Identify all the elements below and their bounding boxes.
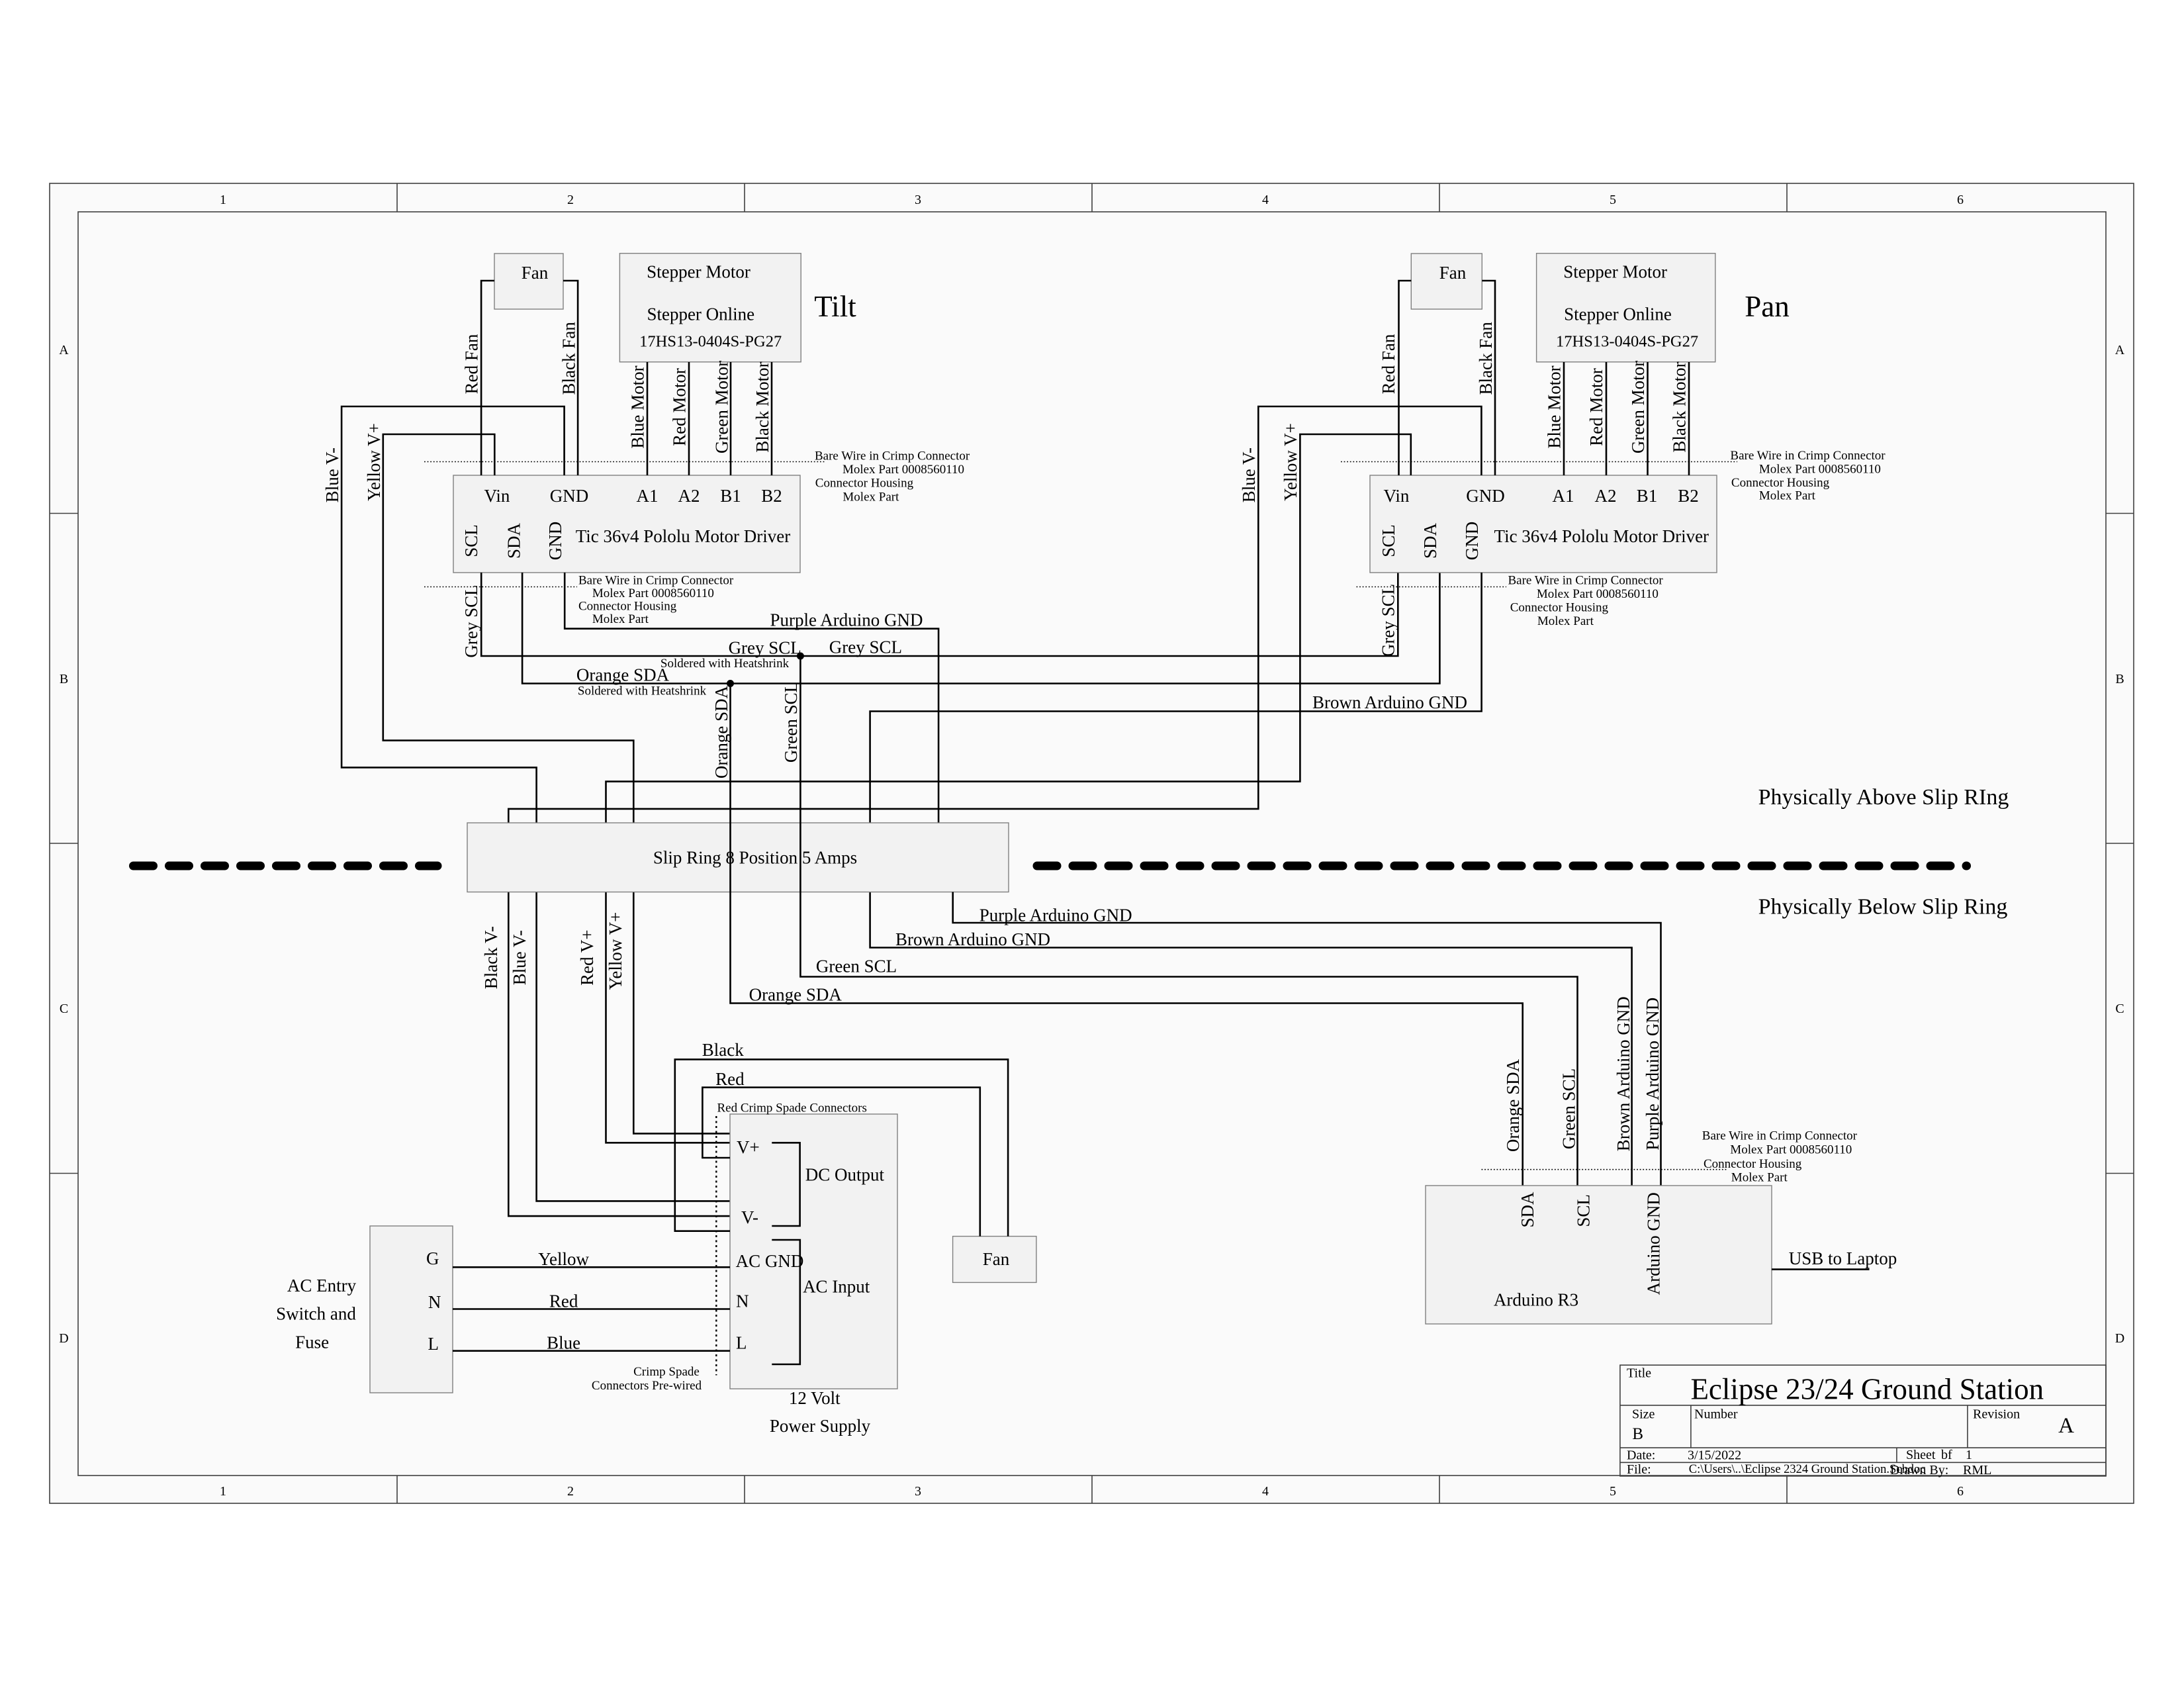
svg-text:AC Entry: AC Entry (287, 1276, 357, 1295)
svg-text:bf: bf (1941, 1448, 1952, 1462)
svg-text:1: 1 (1966, 1448, 1972, 1462)
svg-text:1: 1 (220, 193, 226, 207)
wire yellow AC ground (453, 1266, 730, 1268)
svg-text:Green Motor: Green Motor (1628, 361, 1648, 453)
zone labels bottom (220, 1484, 1964, 1499)
DC output bracket (772, 1143, 799, 1226)
svg-text:Crimp Spade: Crimp Spade (633, 1365, 700, 1379)
svg-text:Stepper Motor: Stepper Motor (1563, 262, 1667, 282)
svg-text:B: B (2115, 672, 2124, 686)
svg-text:Connector Housing: Connector Housing (1510, 601, 1609, 615)
svg-text:Power Supply: Power Supply (770, 1416, 871, 1436)
wire blue motor (tilt) (647, 362, 649, 475)
svg-text:Bare Wire in Crimp Connector: Bare Wire in Crimp Connector (815, 449, 970, 463)
svg-text:Soldered with Heatshrink: Soldered with Heatshrink (578, 684, 707, 698)
bottom fan box (953, 1237, 1036, 1283)
svg-text:Arduino R3: Arduino R3 (1494, 1290, 1578, 1310)
svg-text:GND: GND (1466, 486, 1505, 506)
svg-text:DC Output: DC Output (805, 1165, 885, 1185)
wire brown arduino GND (pan GND through slip ring to arduino) (870, 573, 1632, 1186)
wire blue motor (pan) (1563, 362, 1565, 475)
svg-text:Stepper Online: Stepper Online (647, 305, 754, 324)
svg-text:Vin: Vin (1384, 486, 1410, 506)
slip ring box (467, 823, 1009, 892)
svg-text:Bare Wire in Crimp Connector: Bare Wire in Crimp Connector (1702, 1129, 1858, 1143)
svg-text:Blue Motor: Blue Motor (627, 365, 647, 448)
wire blue AC line (453, 1350, 730, 1352)
svg-text:Red Crimp Spade Connectors: Red Crimp Spade Connectors (717, 1102, 867, 1115)
title block frame (1620, 1365, 2106, 1476)
svg-text:A: A (2115, 343, 2125, 357)
svg-text:Black: Black (702, 1040, 744, 1060)
zone row ticks right (2106, 514, 2134, 1174)
svg-text:SDA: SDA (1518, 1192, 1537, 1228)
wire blue V- (tilt) to slip ring to PSU V- (341, 406, 730, 1201)
svg-text:Red: Red (549, 1291, 578, 1311)
svg-text:Yellow: Yellow (538, 1249, 589, 1269)
wire black motor (pan) (1688, 362, 1690, 475)
svg-text:B: B (60, 672, 68, 686)
svg-text:Orange SDA: Orange SDA (1503, 1058, 1523, 1152)
svg-text:GND: GND (550, 486, 589, 506)
title block: File row (1627, 1462, 1991, 1477)
svg-text:SCL: SCL (1379, 524, 1398, 557)
arduino R3 box (1426, 1186, 1772, 1324)
svg-text:4: 4 (1262, 1484, 1269, 1499)
svg-text:4: 4 (1262, 193, 1269, 207)
svg-text:Red Motor: Red Motor (1586, 368, 1606, 446)
svg-text:5: 5 (1610, 1484, 1616, 1499)
svg-text:Physically Above Slip RIng: Physically Above Slip RIng (1758, 785, 2009, 810)
title block: Date row (1627, 1448, 1972, 1463)
dotted crimp spade line (PSU) (715, 1116, 717, 1376)
separation dashed line right (1037, 862, 1967, 870)
svg-text:V-: V- (741, 1207, 758, 1227)
svg-text:Purple Arduino GND: Purple Arduino GND (770, 610, 923, 630)
svg-text:Black Fan: Black Fan (1476, 322, 1496, 395)
svg-text:SDA: SDA (504, 522, 524, 559)
svg-text:Green SCL: Green SCL (781, 682, 801, 763)
note bare wire crimp (tilt top) (815, 449, 970, 504)
svg-text:C: C (2115, 1002, 2124, 1016)
AC input bracket (772, 1240, 800, 1364)
svg-text:Molex Part: Molex Part (1731, 1171, 1788, 1185)
svg-text:Molex Part 0008560110: Molex Part 0008560110 (1730, 1143, 1852, 1157)
svg-text:Purple Arduino GND: Purple Arduino GND (1643, 998, 1662, 1150)
svg-text:Yellow V+: Yellow V+ (364, 423, 384, 501)
svg-text:File:: File: (1627, 1462, 1651, 1477)
note bare wire crimp (tilt bottom) (578, 574, 734, 627)
svg-text:Grey SCL: Grey SCL (729, 638, 801, 658)
svg-text:Green SCL: Green SCL (1559, 1068, 1578, 1149)
svg-text:Brown Arduino GND: Brown Arduino GND (1614, 996, 1633, 1151)
tilt fan box (494, 254, 563, 309)
wire red PSU to fan (702, 1088, 979, 1237)
wire purple arduino GND (tilt GND to slip ring) (565, 573, 938, 823)
frame inner border (78, 212, 2106, 1476)
wire red fan (pan) (1399, 281, 1412, 475)
wire USB to laptop (1772, 1268, 1870, 1270)
svg-text:Physically Below Slip Ring: Physically Below Slip Ring (1758, 895, 2008, 919)
svg-text:Tilt: Tilt (814, 290, 856, 323)
svg-text:3/15/2022: 3/15/2022 (1688, 1448, 1741, 1463)
svg-text:Red Fan: Red Fan (1379, 334, 1398, 394)
svg-text:3: 3 (915, 193, 921, 207)
note bare wire crimp (pan bottom) (1508, 574, 1664, 629)
zone column ticks top (397, 183, 1787, 212)
svg-text:Orange SDA: Orange SDA (576, 665, 670, 685)
svg-text:Blue V-: Blue V- (1239, 447, 1259, 502)
svg-text:Molex Part 0008560110: Molex Part 0008560110 (1537, 587, 1659, 601)
svg-text:A: A (59, 343, 69, 357)
dotted connector line pan bottom (1357, 586, 1507, 588)
svg-text:Connector Housing: Connector Housing (815, 477, 914, 491)
svg-text:AC Input: AC Input (803, 1276, 870, 1296)
svg-text:Black Motor: Black Motor (752, 361, 772, 452)
svg-text:Blue V-: Blue V- (510, 930, 529, 985)
svg-text:D: D (59, 1331, 68, 1346)
svg-text:Bare Wire in Crimp Connector: Bare Wire in Crimp Connector (1730, 449, 1886, 463)
svg-text:RML: RML (1963, 1463, 1991, 1477)
svg-text:A1: A1 (1553, 486, 1574, 506)
svg-text:Molex Part 0008560110: Molex Part 0008560110 (592, 586, 714, 600)
svg-text:Red Motor: Red Motor (669, 368, 689, 446)
wire black PSU to fan (675, 1059, 1008, 1236)
wire black fan (pan) (1482, 281, 1495, 475)
svg-text:Connector Housing: Connector Housing (1731, 476, 1830, 490)
svg-text:SDA: SDA (1420, 522, 1440, 559)
svg-text:B: B (1632, 1425, 1643, 1443)
svg-text:L: L (736, 1333, 747, 1353)
svg-text:6: 6 (1957, 1484, 1964, 1499)
wire yellow V+ (pan) to slip ring to PSU V+ (606, 434, 1411, 1143)
svg-text:A2: A2 (1595, 486, 1617, 506)
pan motor driver U2 (1370, 475, 1717, 573)
svg-text:B1: B1 (720, 486, 741, 506)
zone labels right (2115, 343, 2125, 1346)
svg-text:6: 6 (1957, 193, 1964, 207)
svg-text:Purple Arduino GND: Purple Arduino GND (979, 906, 1132, 925)
zone row ticks left (50, 514, 78, 1174)
svg-text:17HS13-0404S-PG27: 17HS13-0404S-PG27 (639, 333, 782, 351)
svg-text:Vin: Vin (484, 486, 510, 506)
wire red fan (tilt) (481, 281, 494, 475)
svg-text:Fan: Fan (1439, 263, 1467, 283)
svg-text:D: D (2115, 1331, 2124, 1346)
svg-text:Black Motor: Black Motor (1670, 361, 1690, 452)
svg-text:1: 1 (220, 1484, 226, 1499)
separation dashed line left (134, 862, 438, 870)
svg-text:Brown Arduino GND: Brown Arduino GND (1312, 692, 1467, 712)
svg-text:Title: Title (1627, 1366, 1651, 1381)
svg-text:A2: A2 (678, 486, 700, 506)
svg-text:USB to Laptop: USB to Laptop (1789, 1248, 1897, 1268)
wire blue V- (pan) to slip ring to PSU V- (508, 406, 1481, 1216)
svg-text:Tic 36v4 Pololu Motor Driver: Tic 36v4 Pololu Motor Driver (1494, 526, 1709, 546)
note bare wire crimp (arduino) (1702, 1129, 1858, 1185)
frame outer border (50, 183, 2134, 1503)
note bare wire crimp (pan top) (1730, 449, 1886, 503)
svg-text:5: 5 (1610, 193, 1616, 207)
svg-text:Orange SDA: Orange SDA (711, 685, 731, 778)
svg-text:GND: GND (1462, 522, 1482, 561)
svg-text:Grey SCL: Grey SCL (1379, 584, 1398, 657)
wire red AC neutral (453, 1308, 730, 1310)
svg-text:Pan: Pan (1745, 290, 1790, 323)
svg-text:Stepper Motor: Stepper Motor (647, 262, 751, 282)
svg-text:A: A (2058, 1414, 2074, 1438)
dotted connector line pan top (1341, 461, 1737, 463)
tilt motor driver U1 (453, 475, 800, 573)
svg-text:Slip Ring 8 Position 5 Amps: Slip Ring 8 Position 5 Amps (653, 848, 857, 868)
wire black fan (tilt) (563, 281, 578, 475)
svg-text:Size: Size (1632, 1407, 1655, 1421)
wire orange SDA (junction to slip ring to arduino SDA) (731, 684, 1523, 1186)
wire grey SCL bus tilt-to-pan (481, 573, 1398, 656)
svg-text:G: G (426, 1248, 439, 1268)
svg-text:17HS13-0404S-PG27: 17HS13-0404S-PG27 (1556, 333, 1698, 351)
svg-text:Connector Housing: Connector Housing (578, 600, 677, 614)
svg-text:Connectors Pre-wired: Connectors Pre-wired (592, 1379, 702, 1393)
svg-text:Bare Wire in Crimp Connector: Bare Wire in Crimp Connector (578, 574, 734, 588)
svg-text:Molex Part: Molex Part (1759, 489, 1816, 503)
svg-text:Red V+: Red V+ (577, 929, 597, 985)
svg-text:SCL: SCL (461, 524, 481, 557)
wire black motor (tilt) (771, 362, 773, 475)
svg-text:Yellow V+: Yellow V+ (1281, 423, 1300, 501)
svg-text:C: C (60, 1002, 68, 1016)
svg-text:Molex Part: Molex Part (842, 491, 899, 504)
svg-text:Bare Wire in Crimp Connector: Bare Wire in Crimp Connector (1508, 574, 1664, 588)
svg-text:3: 3 (915, 1484, 921, 1499)
svg-text:Sheet: Sheet (1906, 1448, 1936, 1462)
svg-text:B2: B2 (761, 486, 782, 506)
dotted connector line tilt top (424, 461, 825, 463)
wire yellow V+ (tilt) to slip ring to PSU V+ (383, 434, 730, 1133)
svg-text:Tic 36v4 Pololu Motor Driver: Tic 36v4 Pololu Motor Driver (576, 526, 791, 546)
svg-text:Yellow V+: Yellow V+ (606, 912, 625, 990)
svg-text:N: N (428, 1292, 441, 1312)
svg-text:V+: V+ (737, 1137, 760, 1157)
svg-text:Drawn By:: Drawn By: (1890, 1463, 1948, 1477)
wire green motor (tilt) (730, 362, 732, 475)
svg-text:Molex Part: Molex Part (592, 612, 649, 626)
svg-text:Green SCL: Green SCL (816, 957, 897, 976)
svg-text:Orange SDA: Orange SDA (749, 985, 842, 1005)
svg-text:Black V-: Black V- (481, 926, 501, 989)
svg-text:Arduino GND: Arduino GND (1644, 1192, 1664, 1295)
svg-text:2: 2 (567, 193, 574, 207)
svg-text:Black Fan: Black Fan (559, 322, 578, 395)
dotted connector line tilt bottom (424, 586, 577, 588)
wire purple arduino GND below slip ring (953, 892, 1661, 1186)
12V power supply box (730, 1114, 897, 1389)
svg-text:Revision: Revision (1973, 1407, 2020, 1421)
zone labels left (59, 343, 69, 1346)
AC entry box (370, 1226, 453, 1393)
svg-text:A1: A1 (637, 486, 659, 506)
svg-text:B2: B2 (1678, 486, 1699, 506)
svg-text:GND: GND (545, 522, 565, 561)
svg-text:Connector Housing: Connector Housing (1704, 1157, 1802, 1171)
wire green SCL (junction to slip ring to arduino SCL) (800, 656, 1577, 1186)
wire orange SDA bus tilt-to-pan (522, 573, 1439, 684)
svg-text:Molex Part 0008560110: Molex Part 0008560110 (842, 463, 964, 477)
svg-text:Molex Part 0008560110: Molex Part 0008560110 (1759, 463, 1881, 477)
zone column ticks bottom (397, 1476, 1787, 1503)
svg-text:Green Motor: Green Motor (712, 361, 732, 453)
svg-text:Eclipse 23/24 Ground Station: Eclipse 23/24 Ground Station (1690, 1373, 2044, 1406)
svg-text:SCL: SCL (1573, 1194, 1593, 1227)
svg-text:AC GND: AC GND (736, 1251, 804, 1271)
svg-text:Stepper Online: Stepper Online (1564, 305, 1672, 324)
svg-text:Blue: Blue (547, 1333, 580, 1353)
svg-text:B1: B1 (1637, 486, 1658, 506)
svg-text:Grey SCL: Grey SCL (461, 585, 481, 657)
wire green motor (pan) (1647, 362, 1649, 475)
svg-text:Molex Part: Molex Part (1537, 614, 1594, 628)
wire red motor (pan) (1606, 362, 1608, 475)
svg-text:Red: Red (715, 1069, 745, 1089)
tilt stepper motor box (619, 254, 801, 362)
wire red motor (tilt) (688, 362, 690, 475)
dotted connector line arduino (1482, 1169, 1727, 1170)
pan stepper motor box (1537, 254, 1715, 362)
svg-text:Red Fan: Red Fan (461, 334, 481, 394)
junction orange SDA (727, 680, 734, 687)
svg-text:Fan: Fan (522, 263, 549, 283)
svg-text:Number: Number (1694, 1407, 1738, 1421)
pan fan box (1411, 254, 1482, 309)
svg-text:Blue V-: Blue V- (322, 447, 342, 502)
svg-text:Grey SCL: Grey SCL (829, 637, 902, 657)
svg-text:Blue Motor: Blue Motor (1545, 365, 1565, 448)
svg-text:Soldered with Heatshrink: Soldered with Heatshrink (660, 657, 790, 671)
svg-text:12 Volt: 12 Volt (789, 1388, 841, 1408)
svg-text:Switch and: Switch and (276, 1303, 356, 1323)
svg-text:Fuse: Fuse (295, 1332, 329, 1352)
svg-text:N: N (736, 1291, 749, 1311)
svg-text:Date:: Date: (1627, 1448, 1655, 1463)
junction grey SCL / green SCL (797, 653, 804, 660)
svg-text:Brown Arduino GND: Brown Arduino GND (895, 929, 1050, 949)
zone labels top (220, 193, 1964, 207)
svg-text:L: L (428, 1334, 439, 1354)
svg-text:Fan: Fan (983, 1249, 1010, 1269)
svg-text:2: 2 (567, 1484, 574, 1499)
